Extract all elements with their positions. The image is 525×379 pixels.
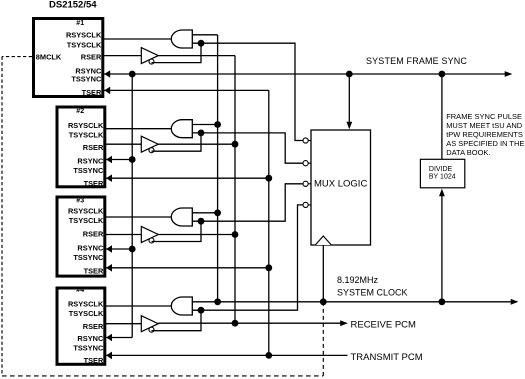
svg-text:AS SPECIFIED IN THE: AS SPECIFIED IN THE [446, 139, 524, 148]
enable bubble on buffer B4 [149, 327, 154, 332]
clock input triangle on MUX LOGIC bottom edge [315, 236, 331, 245]
junction clock vertical / A3 input [214, 209, 221, 216]
svg-text:RSER: RSER [83, 322, 104, 331]
IC U4 DS2152/54 chip #4 block [57, 287, 105, 365]
arrowhead into U4 RSYNC/TSSYNC [106, 334, 112, 342]
svg-text:RSER: RSER [83, 143, 104, 152]
svg-text:RSER: RSER [81, 52, 102, 61]
svg-text:#1: #1 [76, 20, 84, 27]
wire receive PCM line (B4 output to label) [158, 322, 346, 324]
svg-text:TSER: TSER [84, 266, 104, 275]
arrowhead system clock line right end [511, 299, 519, 305]
wire system clock to divide-by-1024 input [441, 194, 443, 302]
arrowhead RECEIVE PCM [340, 320, 348, 326]
wire TSER branch to U2 [106, 177, 269, 179]
svg-text:DS2152/54: DS2152/54 [49, 0, 97, 10]
wire enable net EN2: A2 lower input to MUX LOGIC [192, 133, 303, 163]
junction receive bus / B3 output [232, 231, 239, 238]
svg-text:RSYNC: RSYNC [77, 157, 104, 166]
wire enable net EN4: A4 lower input to MUX LOGIC [192, 205, 303, 310]
wire buffer B1 output to receive bus [158, 55, 235, 57]
svg-text:TSER: TSER [84, 356, 104, 365]
arrowhead into MUX LOGIC top [346, 122, 352, 130]
arrowhead into U4 TSER [106, 352, 112, 360]
svg-text:8MCLK: 8MCLK [36, 52, 62, 61]
junction TSER bus / transmit PCM line [265, 352, 272, 359]
arrowhead into U2 TSER [106, 174, 112, 182]
junction frame sync line / MUX branch [346, 71, 353, 78]
wire A4 output to U4 clock pins [106, 305, 172, 307]
wire 8MCLK dashed bottom horizontal [2, 375, 323, 377]
svg-text:RSYNC: RSYNC [77, 334, 104, 343]
wire A2 top input stub [192, 124, 217, 126]
svg-text:TSSYNC: TSSYNC [73, 344, 104, 353]
svg-text:#2: #2 [76, 108, 84, 115]
svg-text:SYSTEM FRAME SYNC: SYSTEM FRAME SYNC [366, 56, 467, 66]
svg-text:RSYSCLK: RSYSCLK [68, 299, 104, 308]
svg-text:TSSYNC: TSSYNC [73, 166, 104, 175]
wire buffer B3 output to receive bus [158, 234, 235, 236]
svg-text:TSSYNC: TSSYNC [71, 75, 102, 84]
block DIVIDE BY 1024 [420, 159, 464, 188]
bubble MUX LOGIC output 2 (active low) [308, 162, 311, 164]
wire enable net EN3: A3 lower input to MUX LOGIC [192, 184, 303, 221]
svg-text:BY 1024: BY 1024 [429, 173, 456, 180]
wire enable net EN1: A1 lower input to MUX LOGIC [192, 43, 303, 140]
junction EN4 at gate/buffer split [198, 307, 205, 314]
junction frame sync vertical / U2 branch [129, 156, 136, 163]
wire 8MCLK dashed left vertical [1, 57, 3, 376]
tri-state buffer B2 (U2 RSER to receive bus) [141, 136, 158, 152]
svg-text:SYSTEM CLOCK: SYSTEM CLOCK [337, 288, 408, 298]
wire frame sync branch to U4 RSYNC/TSSYNC [106, 337, 132, 339]
svg-text:RSYSCLK: RSYSCLK [68, 121, 104, 130]
wire U3 RSER to buffer B3 input [106, 234, 142, 236]
svg-text:RSYSCLK: RSYSCLK [66, 31, 102, 40]
wire TSER branch to U3 [106, 267, 269, 269]
wire 8.192MHz system clock line (from A4 top input to right edge) [192, 301, 517, 303]
svg-text:TSYSCLK: TSYSCLK [69, 216, 104, 225]
wire buffer B2 output to receive bus [158, 143, 235, 145]
svg-text:TSER: TSER [82, 88, 102, 97]
junction receive bus / receive PCM line [232, 320, 239, 327]
junction system clock line / divider input [439, 298, 446, 305]
junction clock vertical / A2 input [214, 121, 221, 128]
svg-text:#4: #4 [76, 287, 84, 294]
wire U2 RSER to buffer B2 input [106, 143, 142, 145]
AND gate A2 (faces left, output to U2 RSYSCLK/TSYSCLK) [171, 120, 192, 138]
wire EN2 to buffer B2 enable bubble [152, 133, 202, 151]
svg-text:RSYNC: RSYNC [77, 244, 104, 253]
wire frame sync branch to U3 RSYNC/TSSYNC [106, 248, 132, 250]
arrowhead frame sync into U1 RSYNC/TSSYNC [104, 70, 110, 78]
svg-text:TSER: TSER [84, 179, 104, 188]
arrowhead frame sync line right end [505, 71, 513, 77]
IC U1 DS2152/54 chip #1 block [34, 19, 103, 97]
junction receive bus / B2 output [232, 141, 239, 148]
junction clock vertical / system clock line [214, 298, 221, 305]
wire transmit PCM line (U4 TSER to label) [106, 354, 348, 356]
wire A1 output to U1 clock pins [104, 38, 172, 40]
junction frame sync line / divider output [439, 71, 446, 78]
bubble MUX LOGIC output 3 (active low) [308, 183, 311, 185]
junction EN2 at gate/buffer split [198, 130, 205, 137]
svg-text:DIVIDE: DIVIDE [429, 166, 453, 173]
svg-text:RECEIVE PCM: RECEIVE PCM [351, 320, 417, 331]
arrowhead into U2 RSYNC/TSSYNC [106, 156, 112, 164]
tri-state buffer B4 (U4 RSER to receive bus) [141, 316, 158, 332]
IC U2 DS2152/54 chip #2 block [57, 107, 105, 188]
junction frame sync vertical / U3 branch [129, 246, 136, 253]
wire EN4 to buffer B4 enable bubble [152, 310, 202, 331]
junction system clock line / MUX clock + 8MCLK feed [320, 298, 327, 305]
wire frame sync branch to U2 RSYNC/TSSYNC [106, 159, 132, 161]
svg-text:TRANSMIT PCM: TRANSMIT PCM [351, 352, 423, 363]
wire transmit PCM bus vertical (TSER bus) [268, 90, 270, 355]
enable bubble on buffer B1 [149, 59, 154, 64]
wire frame sync to MUX LOGIC top [348, 74, 350, 123]
svg-text:FRAME SYNC PULSE: FRAME SYNC PULSE [446, 112, 522, 121]
tri-state buffer B3 (U3 RSER to receive bus) [141, 227, 158, 243]
AND gate A3 (faces left, output to U3 RSYSCLK/TSYSCLK) [171, 208, 192, 226]
bubble MUX LOGIC output 4 (active low) [308, 204, 311, 206]
wire A3 top input stub [192, 212, 217, 214]
tri-state buffer B1 (U1 RSER to receive bus) [141, 48, 158, 64]
svg-text:TSYSCLK: TSYSCLK [69, 309, 104, 318]
bubble MUX LOGIC output 1 (active low) [308, 140, 311, 142]
svg-text:RSER: RSER [83, 230, 104, 239]
arrowhead into U1 TSER [104, 87, 110, 95]
block MUX LOGIC [311, 130, 371, 245]
wire A3 output to U3 clock pins [106, 216, 172, 218]
svg-text:TSYSCLK: TSYSCLK [69, 131, 104, 140]
svg-text:MUST MEET tSU AND: MUST MEET tSU AND [446, 121, 523, 130]
wire receive PCM bus vertical (buffer outputs) [234, 56, 236, 324]
AND gate A4 (faces left, output to U4 RSYSCLK/TSYSCLK) [171, 297, 192, 315]
wire MUX clock triangle to system clock line [322, 245, 324, 302]
wire frame sync distribution vertical [131, 74, 133, 338]
wire SYSTEM FRAME SYNC horizontal line [104, 73, 511, 75]
junction frame sync vertical at main line [129, 71, 136, 78]
junction TSER bus / U3 branch [265, 264, 272, 271]
arrowhead into DIVIDE BY 1024 bottom [439, 189, 445, 197]
arrowhead into U3 RSYNC/TSSYNC [106, 245, 112, 253]
junction EN1 at gate/buffer split [198, 40, 205, 47]
svg-text:DATA BOOK.: DATA BOOK. [446, 148, 490, 157]
enable bubble on buffer B2 [149, 148, 154, 153]
svg-text:TSSYNC: TSSYNC [73, 253, 104, 262]
junction EN3 at gate/buffer split [198, 218, 205, 225]
wire A2 output to U2 clock pins [106, 128, 172, 130]
wire divide-by-1024 output to frame sync line [441, 74, 443, 159]
wire clock distribution vertical to gates A1-A3 [217, 35, 219, 302]
svg-text:tPW REQUIREMENTS: tPW REQUIREMENTS [446, 130, 523, 139]
AND gate A1 (faces left, output to U1 RSYSCLK/TSYSCLK) [171, 30, 192, 48]
svg-text:#3: #3 [76, 198, 84, 205]
svg-text:MUX LOGIC: MUX LOGIC [314, 178, 367, 189]
arrowhead into U3 TSER [106, 264, 112, 272]
enable bubble on buffer B3 [149, 238, 154, 243]
wire 8MCLK dashed vertical up to system clock line [322, 304, 324, 376]
note FRAME SYNC PULSE requirements [446, 112, 524, 157]
wire EN3 to buffer B3 enable bubble [152, 221, 202, 241]
wire TSER branch to U1 [104, 89, 269, 91]
svg-text:RSYSCLK: RSYSCLK [68, 206, 104, 215]
wire U4 RSER to buffer B4 input [106, 323, 142, 325]
wire A1 top input stub [192, 34, 217, 36]
svg-text:TSYSCLK: TSYSCLK [67, 40, 102, 49]
wire EN1 to buffer B1 enable bubble [152, 43, 202, 62]
junction TSER bus / U2 branch [265, 175, 272, 182]
wire 8MCLK dashed: U1 8MCLK pin to left edge [2, 56, 32, 58]
IC U3 DS2152/54 chip #3 block [57, 197, 105, 276]
svg-text:8.192MHz: 8.192MHz [337, 275, 379, 285]
wire U1 RSER to buffer B1 input [104, 55, 142, 57]
